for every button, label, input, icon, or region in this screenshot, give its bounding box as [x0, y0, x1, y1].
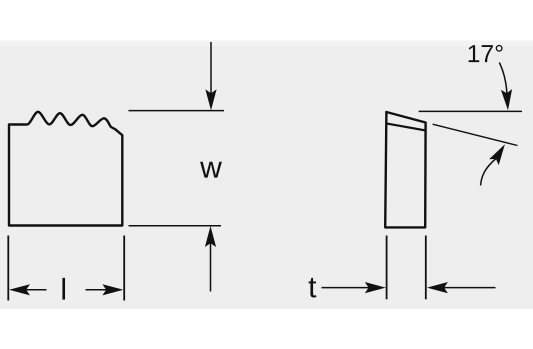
angle: lower curved leader arrowhead (points up-right to slanted line) [489, 144, 505, 165]
left view: insert face outline with serrated (wavy) top [9, 112, 122, 226]
dimension w: label [200, 162, 222, 178]
drawing panel lighter top strip [0, 41, 533, 47]
dimension t: left arrow shaft [322, 287, 371, 289]
dimension t: left extension line [386, 236, 388, 300]
dimension w: upper arrow shaft [210, 42, 212, 95]
dimension w: bottom extension line [129, 225, 222, 227]
dimension w: upper arrowhead (points down) [205, 89, 216, 110]
right view: insert side outline with 17-degree bevel [385, 112, 425, 227]
dimension t: label [309, 278, 317, 298]
dimension l: left arrow shaft [25, 289, 47, 291]
angle: horizontal reference line [419, 110, 522, 112]
dimension l: right arrowhead (points right) [102, 284, 123, 295]
dimension t: right arrow shaft [442, 287, 495, 289]
dimension l: left arrowhead (points left) [9, 284, 30, 295]
angle: upper curved leader arrowhead (points down to horizontal line) [501, 89, 512, 110]
dimension l: right extension line [123, 236, 125, 301]
drawing panel background [0, 41, 533, 310]
angle: lower curved leader shaft [481, 159, 496, 186]
dimension w: lower arrowhead (points up) [205, 226, 216, 247]
right view: inner bevel edge line [386, 123, 425, 130]
dimension t: left arrowhead (points right) [365, 282, 386, 293]
dimension l: right arrow shaft [86, 289, 108, 291]
dimension l: label [62, 278, 65, 300]
angle: slanted reference line [433, 124, 518, 145]
dimension t: right extension line [425, 236, 427, 300]
dimension l: left extension line [7, 236, 9, 301]
angle: upper curved leader shaft [499, 63, 507, 96]
dimension w: top extension line [129, 110, 225, 112]
angle: label 17 degrees [469, 45, 503, 62]
dimension t: right arrowhead (points left) [427, 282, 448, 293]
dimension w: lower arrow shaft [210, 242, 212, 292]
